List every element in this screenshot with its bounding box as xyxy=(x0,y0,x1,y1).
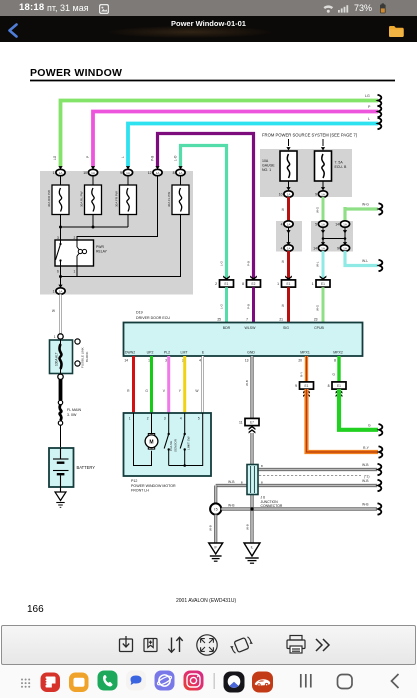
svg-text:R-Y: R-Y xyxy=(300,372,304,377)
svg-text:3: 3 xyxy=(165,359,167,363)
svg-text:E1: E1 xyxy=(321,282,325,286)
svg-text:R: R xyxy=(127,389,130,393)
svg-text:SENSOR: SENSOR xyxy=(174,438,178,452)
svg-text:L: L xyxy=(368,117,370,121)
svg-text:12: 12 xyxy=(148,171,152,175)
svg-text:5: 5 xyxy=(198,417,200,421)
svg-text:PL2: PL2 xyxy=(164,351,170,355)
svg-text:FROM POWER SOURCE SYSTEM (SEE: FROM POWER SOURCE SYSTEM (SEE PAGE 7) xyxy=(262,133,358,138)
svg-text:1: 1 xyxy=(54,335,56,339)
svg-text:1: 1 xyxy=(74,270,76,274)
svg-text:BATTERY: BATTERY xyxy=(77,465,96,470)
svg-text:14: 14 xyxy=(335,222,339,226)
svg-text:GND: GND xyxy=(247,351,255,355)
svg-text:9: 9 xyxy=(315,192,317,196)
svg-text:23: 23 xyxy=(314,318,318,322)
svg-text:E1: E1 xyxy=(225,282,229,286)
svg-text:25: 25 xyxy=(217,318,221,322)
svg-text:10: 10 xyxy=(83,171,87,175)
svg-text:Y: Y xyxy=(179,389,182,393)
svg-text:P-B: P-B xyxy=(247,304,251,309)
svg-text:9: 9 xyxy=(120,171,122,175)
svg-text:IF: IF xyxy=(214,545,217,549)
svg-text:5: 5 xyxy=(315,222,317,226)
svg-text:E1: E1 xyxy=(305,384,309,388)
svg-text:L-O: L-O xyxy=(220,303,224,309)
svg-text:JUNCTION: JUNCTION xyxy=(261,500,279,504)
svg-text:RELAY: RELAY xyxy=(96,250,108,254)
svg-text:7: 7 xyxy=(246,318,248,322)
svg-text:P-B: P-B xyxy=(247,261,251,266)
svg-text:W-L: W-L xyxy=(316,261,320,267)
svg-text:NO. 1: NO. 1 xyxy=(262,168,271,172)
svg-text:WLSW: WLSW xyxy=(245,326,257,330)
svg-text:W-G: W-G xyxy=(316,304,320,311)
svg-text:6: 6 xyxy=(57,270,59,274)
svg-text:3: 3 xyxy=(57,236,59,240)
svg-text:BDR: BDR xyxy=(223,326,231,330)
svg-text:CPUB: CPUB xyxy=(314,326,324,330)
svg-text:BLOCK: BLOCK xyxy=(85,351,89,362)
svg-text:30A RL PW: 30A RL PW xyxy=(80,191,84,207)
svg-text:1: 1 xyxy=(277,282,279,286)
svg-text:W-L: W-L xyxy=(362,259,368,263)
svg-text:3. 0W: 3. 0W xyxy=(67,413,77,417)
svg-text:1: 1 xyxy=(312,282,314,286)
svg-text:4: 4 xyxy=(281,222,283,226)
svg-text:20: 20 xyxy=(298,359,302,363)
svg-text:G: G xyxy=(368,424,371,428)
svg-text:166: 166 xyxy=(27,604,44,615)
svg-text:W-B: W-B xyxy=(362,503,369,507)
svg-text:MPX1: MPX1 xyxy=(300,351,310,355)
svg-text:10A: 10A xyxy=(262,159,269,163)
svg-text:R-Y: R-Y xyxy=(363,446,370,450)
svg-text:FRONT LH: FRONT LH xyxy=(131,489,149,493)
svg-text:P: P xyxy=(368,105,371,109)
svg-text:FL MAIN: FL MAIN xyxy=(67,408,81,412)
svg-text:L-O: L-O xyxy=(174,155,178,161)
svg-text:V: V xyxy=(163,389,166,393)
svg-text:(*1): (*1) xyxy=(364,475,369,479)
svg-text:P12: P12 xyxy=(131,479,137,483)
svg-text:IL: IL xyxy=(251,545,254,549)
svg-text:10: 10 xyxy=(279,192,283,196)
svg-text:R: R xyxy=(282,304,285,308)
svg-text:W: W xyxy=(195,389,199,393)
svg-text:FUSIBLE LINK: FUSIBLE LINK xyxy=(81,346,85,368)
svg-text:LG: LG xyxy=(365,94,370,98)
svg-text:W-B: W-B xyxy=(245,380,249,386)
svg-text:W-B: W-B xyxy=(228,504,235,508)
svg-text:100A ALT: 100A ALT xyxy=(55,352,59,366)
svg-text:8: 8 xyxy=(334,359,336,363)
svg-text:POWER WINDOW MOTOR: POWER WINDOW MOTOR xyxy=(131,484,176,488)
svg-text:W: W xyxy=(52,309,56,313)
svg-text:W-B: W-B xyxy=(209,525,213,531)
svg-text:14: 14 xyxy=(124,359,128,363)
svg-text:30A FR PW: 30A FR PW xyxy=(115,191,119,207)
svg-text:I 5: I 5 xyxy=(214,508,218,512)
svg-text:G: G xyxy=(332,373,335,377)
svg-text:1: 1 xyxy=(148,359,150,363)
svg-text:R: R xyxy=(282,208,285,212)
svg-text:PULSE: PULSE xyxy=(169,441,173,451)
svg-text:L-O: L-O xyxy=(220,260,224,266)
svg-text:30A R/R PW: 30A R/R PW xyxy=(47,190,51,207)
svg-text:4: 4 xyxy=(180,417,182,421)
svg-text:3: 3 xyxy=(164,417,166,421)
svg-text:LMT: LMT xyxy=(181,351,189,355)
svg-text:R: R xyxy=(282,260,285,264)
svg-text:2: 2 xyxy=(147,417,149,421)
svg-text:ECU- B: ECU- B xyxy=(335,165,348,169)
svg-text:11: 11 xyxy=(239,420,243,424)
svg-text:DRIVER DOOR ECU: DRIVER DOOR ECU xyxy=(136,316,170,320)
svg-text:W-G: W-G xyxy=(316,206,320,213)
svg-text:9: 9 xyxy=(295,384,297,388)
svg-text:8: 8 xyxy=(173,171,175,175)
svg-text:LIMIT SW: LIMIT SW xyxy=(187,436,191,450)
svg-text:LG: LG xyxy=(53,155,57,160)
svg-text:M: M xyxy=(149,439,153,445)
svg-text:D19: D19 xyxy=(136,311,143,315)
svg-text:1: 1 xyxy=(53,171,55,175)
svg-text:2001 AVALON (EWD431U): 2001 AVALON (EWD431U) xyxy=(176,598,236,604)
svg-text:E2: E2 xyxy=(252,282,256,286)
svg-text:2: 2 xyxy=(215,282,217,286)
svg-text:W-B: W-B xyxy=(246,524,250,530)
svg-text:8: 8 xyxy=(261,464,263,468)
svg-text:1: 1 xyxy=(53,289,55,293)
svg-text:13: 13 xyxy=(245,359,249,363)
svg-text:P: P xyxy=(86,156,90,158)
svg-text:J 6: J 6 xyxy=(261,495,266,499)
svg-text:SIG: SIG xyxy=(283,326,289,330)
svg-text:W-B: W-B xyxy=(228,480,235,484)
svg-text:DWN2: DWN2 xyxy=(125,351,135,355)
svg-text:14: 14 xyxy=(313,246,317,250)
svg-text:UP2: UP2 xyxy=(147,351,154,355)
svg-text:9: 9 xyxy=(337,246,339,250)
svg-text:W-B: W-B xyxy=(362,463,369,467)
svg-text:E1: E1 xyxy=(287,282,291,286)
svg-text:POWER WINDOW: POWER WINDOW xyxy=(30,67,122,79)
svg-text:PWR: PWR xyxy=(96,245,104,249)
svg-text:L: L xyxy=(121,156,125,158)
svg-text:E1: E1 xyxy=(337,384,341,388)
svg-text:21: 21 xyxy=(279,318,283,322)
svg-text:W-G: W-G xyxy=(362,203,369,207)
svg-text:30A FL PW: 30A FL PW xyxy=(167,192,171,207)
svg-text:E7: E7 xyxy=(250,420,254,424)
svg-text:MPX2: MPX2 xyxy=(333,351,343,355)
svg-text:G: G xyxy=(145,389,148,393)
svg-text:2: 2 xyxy=(74,236,76,240)
svg-text:4: 4 xyxy=(199,359,201,363)
svg-text:GAUGE: GAUGE xyxy=(262,164,275,168)
svg-text:P-B: P-B xyxy=(151,156,155,161)
svg-text:7. 5A: 7. 5A xyxy=(335,161,344,165)
svg-text:4: 4 xyxy=(281,246,283,250)
svg-text:1: 1 xyxy=(129,417,131,421)
svg-text:W-B: W-B xyxy=(362,479,369,483)
svg-text:8: 8 xyxy=(242,282,244,286)
svg-text:8: 8 xyxy=(328,384,330,388)
